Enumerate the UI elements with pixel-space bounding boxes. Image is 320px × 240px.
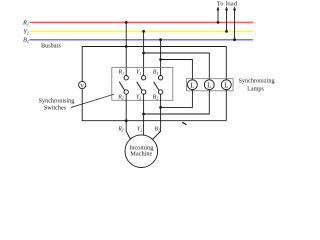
junction dot R2 on long horizontal	[125, 119, 128, 122]
svg-text:L: L	[190, 82, 194, 90]
label B2 (machine)	[154, 126, 160, 132]
switch blade Y	[137, 82, 142, 91]
label To load	[217, 0, 238, 7]
svg-text:Y2: Y2	[137, 126, 142, 132]
switch pole B: terminal B2	[158, 90, 162, 94]
wire B branch to lamp L1 (horizontal y=59.5)	[161, 60, 193, 80]
junction dot R drop on red busbar	[125, 21, 128, 24]
junction dot to-load R	[217, 21, 220, 24]
junction dot lamp2-Y2	[142, 113, 145, 116]
wire lamp L3 bottom to R2 net	[225, 90, 227, 121]
leader line to switch box	[71, 94, 114, 107]
switch pole B: terminal B1	[158, 76, 162, 80]
svg-text:Switches: Switches	[44, 104, 67, 111]
svg-text:Busbars: Busbars	[41, 43, 62, 50]
switch pole R: terminal R2	[124, 90, 128, 94]
wire to-load R with arrow	[217, 6, 220, 22]
wire R branch to lamp L3 and voltmeter (horizontal y=46.5)	[82, 47, 226, 82]
switch pole Y: terminal Y2	[141, 90, 145, 94]
label R2 (switch bottom)	[117, 94, 124, 100]
wire lamp L2 bottom to Y2 net	[144, 90, 210, 114]
wire B2 from switch to machine	[152, 94, 160, 139]
switch blade R	[119, 82, 124, 91]
svg-text:L: L	[224, 82, 228, 90]
wire B drop from blue busbar to switch B1 terminal	[160, 40, 162, 76]
label Synchronising Switches	[39, 98, 75, 112]
label R1 (switch top)	[117, 70, 124, 76]
wire R drop from red busbar to switch R1 terminal	[125, 22, 127, 75]
svg-text:L: L	[207, 82, 211, 90]
wire lamp L1 bottom to B2 net	[161, 90, 193, 108]
junction dot Y drop on yellow busbar	[142, 30, 145, 33]
lamp box	[186, 79, 233, 91]
label B1	[23, 37, 29, 44]
svg-text:Y1: Y1	[136, 70, 141, 76]
label R1	[22, 19, 29, 26]
stray mark	[182, 122, 186, 124]
svg-text:R2: R2	[117, 126, 124, 132]
svg-text:R1: R1	[117, 70, 124, 76]
junction dot to-load Y	[225, 30, 228, 33]
svg-text:R1: R1	[22, 19, 29, 26]
lamp L (right)	[221, 80, 231, 90]
label Y2 (machine)	[137, 126, 142, 132]
svg-text:Lamps: Lamps	[247, 86, 264, 93]
switch pole R: terminal R1	[124, 76, 128, 80]
label B2 (switch bottom)	[153, 94, 159, 100]
switch blade B	[154, 82, 159, 91]
junction dot B branch	[159, 58, 162, 61]
wire R2 from switch to machine	[126, 94, 130, 139]
svg-text:To load: To load	[217, 0, 238, 7]
voltmeter V	[79, 81, 86, 89]
svg-text:B1: B1	[23, 37, 29, 44]
junction dot R branch	[125, 45, 128, 48]
junction dot to-load B	[233, 38, 236, 41]
svg-text:B2: B2	[153, 94, 159, 100]
lamp L (left)	[188, 80, 198, 90]
incoming machine	[125, 135, 158, 168]
svg-text:Y1: Y1	[23, 28, 29, 35]
svg-text:B1: B1	[153, 70, 159, 76]
busbar R1 (red)	[30, 21, 254, 23]
junction dot lamp1-B2	[159, 106, 162, 109]
label B1 (switch top)	[153, 70, 159, 76]
svg-text:Synchronizing: Synchronizing	[238, 78, 274, 85]
svg-text:B2: B2	[154, 126, 160, 132]
busbar Y1 (yellow)	[30, 30, 254, 32]
switch box	[112, 67, 173, 100]
wire Y drop from yellow busbar to switch Y1 terminal	[143, 31, 145, 75]
label Y1 (switch top)	[136, 70, 141, 76]
busbar B1 (blue)	[30, 39, 254, 41]
svg-text:V: V	[80, 83, 84, 89]
lamp L (middle)	[204, 80, 214, 90]
switch pole Y: terminal Y1	[141, 76, 145, 80]
wire to-load Y with arrow	[225, 6, 228, 31]
wire voltmeter to R2 net (vertical then long horizontal y=120.7)	[82, 89, 226, 121]
label Y2 (switch bottom)	[136, 94, 141, 100]
svg-text:Machine: Machine	[130, 151, 152, 158]
wire Y branch to lamp L2 (horizontal y=53)	[144, 53, 210, 80]
wire to-load B with arrow	[233, 6, 236, 40]
label Y1	[23, 28, 29, 35]
label R2 (machine)	[117, 126, 124, 132]
wire Y2 from switch to machine	[143, 94, 145, 135]
svg-text:R2: R2	[117, 94, 124, 100]
junction dot Y branch	[142, 52, 145, 55]
label Busbars	[41, 43, 62, 50]
label Synchronizing Lamps	[238, 78, 274, 93]
junction dot B drop on blue busbar	[159, 38, 162, 41]
svg-text:Y2: Y2	[136, 94, 141, 100]
